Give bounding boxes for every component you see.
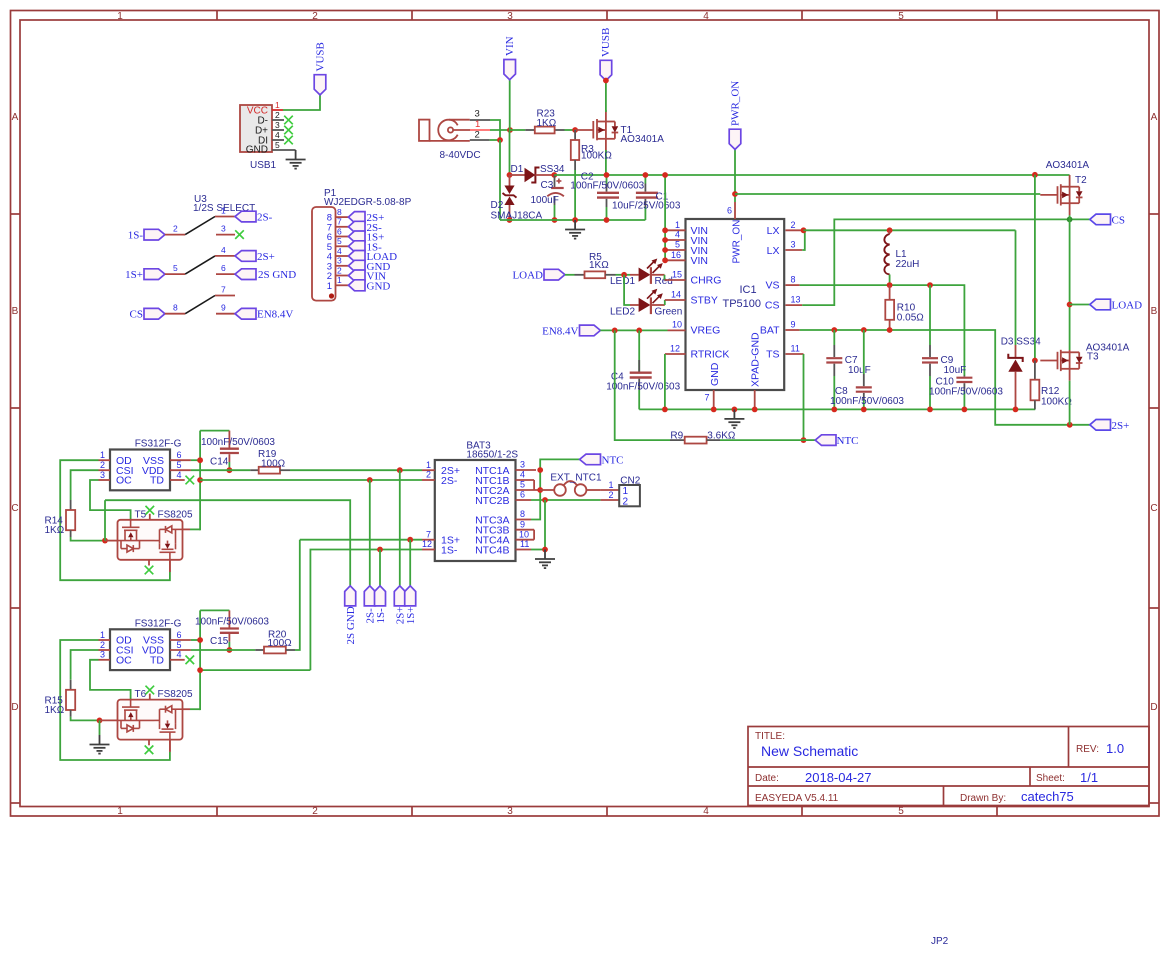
svg-text:CN2: CN2 (620, 476, 640, 487)
IC1 pin 7 GND stub (704, 390, 713, 409)
svg-text:3: 3 (221, 224, 226, 234)
junction VS/C9 (927, 282, 933, 288)
no-connect X on TD pin (186, 656, 195, 665)
svg-text:USB1: USB1 (250, 160, 277, 171)
svg-text:CS: CS (765, 300, 780, 312)
GND bus wire y=220 (500, 219, 645, 221)
svg-text:PWR_ON: PWR_ON (730, 81, 742, 126)
junction main ground (732, 407, 738, 413)
svg-text:EASYEDA V5.4.11: EASYEDA V5.4.11 (755, 793, 839, 804)
no-connect X on T6 bottom pin (145, 740, 154, 755)
svg-text:Green: Green (655, 307, 683, 318)
P1 pin 3 to net GND (336, 256, 391, 273)
net flag EN8.4V (U3) (235, 308, 293, 320)
svg-text:catech75: catech75 (1021, 789, 1074, 804)
svg-text:C15: C15 (210, 636, 229, 647)
svg-text:4: 4 (703, 806, 709, 817)
P1 pin 2 to net VIN (336, 265, 387, 282)
wire VSS node vertical (191, 610, 200, 710)
junction NTC1A (537, 467, 543, 473)
U3 pin 2 (165, 224, 185, 235)
svg-text:1: 1 (327, 281, 332, 292)
wire CS net (802, 219, 1090, 305)
svg-text:2S+: 2S+ (257, 251, 275, 263)
svg-text:LOAD: LOAD (1112, 300, 1143, 312)
IC1 pin 8 VS stub (786, 284, 800, 286)
svg-text:LED1: LED1 (610, 276, 635, 287)
LED2 Green (610, 289, 682, 318)
svg-text:1: 1 (100, 630, 105, 640)
svg-text:3: 3 (100, 470, 105, 480)
svg-text:3: 3 (791, 240, 796, 250)
net flag NTC (BAT3) (580, 454, 624, 466)
svg-text:1: 1 (608, 480, 613, 490)
FS312 1 pin stubs (99, 460, 191, 480)
svg-text:100Ω: 100Ω (261, 459, 286, 470)
svg-text:New Schematic: New Schematic (761, 743, 858, 759)
svg-text:10uF: 10uF (944, 365, 967, 376)
U3 pin 6 (216, 263, 235, 274)
wire CSI to R14 (71, 470, 99, 500)
svg-text:4: 4 (177, 470, 182, 480)
BAT3 right pin stubs (516, 470, 541, 550)
svg-text:3: 3 (475, 109, 480, 120)
svg-text:JP2: JP2 (931, 936, 949, 947)
junction 2S+/T3 drain (1067, 422, 1073, 428)
junction BAT/C7 (831, 327, 837, 333)
svg-text:A: A (12, 112, 19, 123)
svg-text:2S-: 2S- (441, 475, 458, 487)
svg-text:NTC2B: NTC2B (475, 495, 509, 507)
junction jack pin2 node (497, 137, 503, 143)
ground main (724, 409, 744, 428)
svg-text:2: 2 (100, 640, 105, 650)
svg-text:5: 5 (898, 11, 904, 22)
GND bus wire y=409.4 (639, 408, 1035, 410)
svg-text:8: 8 (173, 303, 178, 313)
wire 2S- vertical to flag (369, 480, 371, 586)
junction R3/GND (572, 217, 578, 223)
svg-text:4: 4 (275, 130, 280, 140)
svg-text:11: 11 (791, 344, 800, 354)
svg-text:2S GND: 2S GND (258, 269, 296, 281)
svg-text:NTC: NTC (602, 454, 624, 466)
transistor T6 FS8205 dual MOSFET (118, 689, 193, 740)
wire VSS node vertical (191, 431, 200, 531)
net flag 1S+ (vertical) (405, 586, 417, 624)
junction VIN pin4 (662, 237, 668, 243)
wire 1S- row (310, 550, 422, 671)
svg-text:1KΩ: 1KΩ (589, 260, 609, 271)
svg-text:1: 1 (675, 220, 680, 230)
net flag NTC (R9) (815, 435, 858, 447)
P1 pin 6 to net 1S+ (336, 226, 385, 243)
junction T3 gate node (1032, 358, 1038, 364)
no-connect X on T6 top pin (146, 686, 155, 700)
capacitor C15 100nF/50V/0603 (195, 610, 269, 650)
junction C15 bottom (227, 647, 233, 653)
svg-text:Date:: Date: (755, 773, 779, 784)
net flag VIN (504, 36, 516, 130)
svg-text:3: 3 (100, 650, 105, 660)
wire 1S+ vertical to flag (409, 540, 411, 586)
svg-text:T6: T6 (135, 689, 147, 700)
svg-text:7: 7 (704, 393, 709, 403)
svg-text:2: 2 (337, 265, 342, 275)
svg-text:9: 9 (221, 303, 226, 313)
capacitor C1 10uF/25V/0603 (612, 175, 681, 220)
svg-text:EXT_NTC1: EXT_NTC1 (550, 473, 602, 484)
IC1 VIN pin stubs 1,4,5,16 (665, 230, 685, 260)
jumper link 8-7 (185, 296, 215, 314)
wire VIN vertical to D1 (509, 130, 511, 175)
connector CN2 (601, 476, 641, 508)
capacitor C3 100uF polarized (531, 175, 564, 220)
svg-text:18650/1-2S: 18650/1-2S (466, 450, 518, 461)
svg-text:6: 6 (727, 206, 732, 216)
svg-text:100Ω: 100Ω (268, 638, 293, 649)
wire LX corner down to D3 (1015, 230, 1017, 345)
svg-text:CS: CS (130, 309, 143, 321)
jack pin 1 highlighted (470, 119, 490, 130)
svg-text:LX: LX (767, 245, 780, 257)
svg-text:D: D (1150, 702, 1157, 713)
junction BAT/R10 (887, 327, 893, 333)
svg-text:3: 3 (507, 11, 513, 22)
jack pin 3 (470, 109, 490, 121)
IC C14 FS312F-G body (110, 439, 182, 491)
wire PWR_ON to T2 gate (735, 193, 1040, 195)
U3 pin 5 (165, 263, 185, 274)
svg-text:4: 4 (703, 11, 709, 22)
svg-text:1S-: 1S- (441, 545, 458, 557)
svg-text:4: 4 (337, 246, 342, 256)
wire OD pin loop to T6 bottom (60, 640, 170, 760)
junction VSS2 link (197, 667, 203, 673)
wire LOAD tap to flag (1070, 304, 1090, 306)
wire 1S- vertical to flag (379, 550, 381, 586)
svg-text:100uF: 100uF (531, 195, 559, 206)
svg-text:11: 11 (520, 539, 529, 549)
svg-text:3: 3 (337, 256, 342, 266)
svg-text:4: 4 (177, 650, 182, 660)
jumper EXT_NTC1 (540, 473, 602, 496)
svg-text:AO3401A: AO3401A (1046, 160, 1090, 171)
svg-text:TP5100: TP5100 (723, 298, 762, 310)
svg-text:1S-: 1S- (128, 230, 144, 242)
svg-text:2: 2 (312, 806, 318, 817)
junction C10/GND bus (962, 407, 968, 413)
svg-text:1: 1 (275, 100, 280, 110)
svg-text:OC: OC (116, 655, 132, 667)
IC1 pin 2 LX stub (786, 229, 804, 231)
svg-text:1: 1 (100, 450, 105, 460)
svg-text:VS: VS (765, 280, 779, 292)
no-connect X on T5 top pin (146, 506, 155, 520)
resistor R5 1KOhm (575, 252, 616, 278)
junction D1 anode (507, 172, 513, 178)
IC1 pin 13 CS stub (786, 304, 803, 306)
svg-text:2: 2 (608, 490, 613, 500)
junction L1 top (887, 227, 893, 233)
junction VIN pin16 (662, 257, 668, 263)
IC1 XPAD-GND stub (754, 390, 756, 409)
capacitor C10 100nF/50V/0603 (929, 376, 1003, 410)
svg-text:FS8205: FS8205 (158, 509, 193, 520)
junction BAT/C8 (861, 327, 867, 333)
U3 pin 7 open (215, 285, 235, 296)
resistor R9 3.6KOhm (670, 430, 736, 443)
wire R14 to T5 left pin (71, 537, 105, 541)
svg-text:100KΩ: 100KΩ (1041, 397, 1072, 408)
wire LED1 to LED2 branch (624, 275, 630, 305)
FS312 2 pin stubs (99, 640, 191, 660)
svg-text:XPAD-GND: XPAD-GND (750, 332, 762, 387)
wire NTC net at BAT3 (531, 459, 580, 519)
capacitor C9 10uF (922, 285, 966, 409)
svg-text:2: 2 (173, 224, 178, 234)
net flag CS (U3) (130, 308, 165, 320)
svg-text:2: 2 (475, 130, 480, 141)
svg-text:1KΩ: 1KΩ (537, 118, 557, 129)
svg-text:2: 2 (791, 220, 796, 230)
svg-text:TD: TD (150, 475, 164, 487)
ground at BAT3 NTC4B (535, 550, 555, 569)
IC1 pin 9 BAT stub (786, 329, 800, 331)
svg-text:7: 7 (426, 529, 431, 539)
wire pin2 node down to GND bus (499, 140, 501, 220)
IC1 pin 6 stub (727, 202, 735, 219)
LED1 Red (610, 259, 673, 288)
wire T2 gate vertical (1034, 175, 1036, 361)
inductor L1 22uH (884, 230, 919, 285)
svg-text:10: 10 (519, 529, 529, 539)
USB1 pin 4 DI (272, 130, 293, 144)
jumper header U3 labels (193, 194, 255, 214)
junction T2 gate node (1032, 172, 1038, 178)
svg-text:5: 5 (173, 263, 178, 273)
junction TD row (197, 477, 203, 483)
connector J1 DC jack 8-40VDC (419, 120, 470, 141)
net flag CS (1090, 214, 1125, 226)
net flag 2S GND (235, 269, 296, 281)
wire T1 drain to VIN bus (605, 150, 607, 175)
svg-text:100nF/50V/0603: 100nF/50V/0603 (606, 382, 680, 393)
svg-text:1/1: 1/1 (1080, 770, 1098, 785)
TVS diode D2 SMAJ18CA (491, 175, 543, 222)
svg-text:2: 2 (312, 11, 318, 22)
IC1 pin 12 stub and wire to GND bus (665, 354, 686, 409)
IC C15 FS312F-G body (110, 618, 182, 670)
net flag 2S+ (right) (1090, 420, 1130, 432)
svg-text:OC: OC (116, 475, 132, 487)
ground at USB1 pin 5 (286, 150, 306, 169)
svg-text:1: 1 (221, 206, 226, 216)
junction NTC2B/NTC4B link (542, 497, 548, 503)
svg-text:6: 6 (177, 630, 182, 640)
junction LOAD tap (1067, 302, 1073, 308)
svg-text:5: 5 (177, 460, 182, 470)
svg-text:1.0: 1.0 (1106, 741, 1124, 756)
net flag 2S+ (235, 251, 275, 263)
net flag EN8.4V (542, 325, 600, 337)
wire R20 up to 1S+ row (295, 540, 300, 650)
svg-text:EN8.4V: EN8.4V (542, 326, 578, 338)
capacitor C4 100nF/50V/0603 (606, 330, 680, 409)
battery holder BAT3 body (435, 441, 519, 562)
svg-text:VUSB: VUSB (600, 28, 612, 57)
svg-text:GND: GND (709, 362, 721, 386)
wire jack pin1 to VIN node (490, 129, 510, 131)
svg-text:8: 8 (791, 275, 796, 285)
junction D3/GND bus (1013, 407, 1019, 413)
svg-text:B: B (1151, 306, 1158, 317)
P1 pin 4 to net LOAD (336, 246, 398, 263)
svg-text:8: 8 (520, 509, 525, 519)
svg-text:6: 6 (520, 490, 525, 500)
svg-text:T3: T3 (1087, 352, 1099, 363)
svg-text:GND: GND (367, 280, 391, 292)
net flag 1S+ (125, 269, 165, 281)
svg-text:LOAD: LOAD (512, 270, 543, 282)
wire VSS2 to 1S- link (200, 669, 310, 671)
junction EN8.4V/C4 branch (636, 328, 642, 334)
USB1 pin 2 D- (272, 110, 293, 124)
net flag LOAD (right) (1090, 299, 1142, 311)
svg-text:100nF/50V/0603: 100nF/50V/0603 (929, 387, 1003, 398)
wire LED1 jog to pin15 (664, 275, 666, 280)
svg-text:FS312F-G: FS312F-G (135, 618, 182, 629)
svg-text:1: 1 (117, 806, 123, 817)
svg-text:4: 4 (221, 245, 226, 255)
U3 pin 8 (165, 303, 185, 314)
svg-text:15: 15 (672, 270, 682, 280)
svg-text:GND: GND (246, 145, 268, 156)
junction 1S+ branch (407, 537, 413, 543)
svg-text:2S GND: 2S GND (345, 606, 357, 644)
svg-text:1: 1 (426, 460, 431, 470)
svg-text:10uF: 10uF (848, 365, 871, 376)
wire VIN node to R23 (510, 129, 525, 131)
svg-text:STBY: STBY (691, 295, 718, 307)
net flag VUSB (USB1) (314, 42, 326, 95)
junction T6 left node (97, 718, 103, 724)
U3 pin 9 (216, 303, 235, 314)
svg-text:1: 1 (475, 119, 480, 130)
resistor R23 1KOhm (525, 108, 564, 133)
svg-text:100nF/50V/0603: 100nF/50V/0603 (830, 396, 904, 407)
junction LED branch (621, 272, 627, 278)
junction VIN bus tap (662, 172, 668, 178)
junction C9/GND bus (927, 407, 933, 413)
wire 2S- row (200, 479, 422, 481)
IC1 pin 10 stub (668, 329, 686, 331)
wire R23 to T1 gate node (565, 129, 576, 131)
ground at T6 node (90, 720, 110, 753)
resistor R19 100Ohm (191, 449, 290, 474)
svg-text:R12: R12 (1041, 386, 1060, 397)
svg-text:5: 5 (337, 236, 342, 246)
resistor R20 100Ohm (191, 629, 295, 653)
junction pin12/GND bus (662, 407, 668, 413)
net flag 1S- (128, 229, 165, 241)
svg-text:NTC: NTC (837, 435, 859, 447)
ground at GND bus (565, 220, 585, 239)
T6 right pin wire (183, 708, 201, 710)
junction T1 gate node (572, 127, 578, 133)
capacitor C2 100nF/50V/0603 (570, 172, 644, 221)
wire R3 bottom to GND bus (574, 170, 576, 220)
transistor T2 AO3401A PMOS (1040, 175, 1082, 215)
svg-text:5: 5 (177, 640, 182, 650)
svg-text:7: 7 (221, 285, 226, 295)
resistor R12 100KOhm (1031, 361, 1073, 410)
svg-text:3: 3 (520, 460, 525, 470)
net flag 2S+ (vertical) (394, 586, 406, 624)
svg-text:12: 12 (422, 539, 432, 549)
T6 bottom drain stub (169, 740, 171, 752)
svg-text:1S-: 1S- (375, 608, 387, 624)
junction VSS (197, 637, 203, 643)
svg-text:2S+: 2S+ (1112, 420, 1130, 432)
junction C2 bottom (604, 217, 610, 223)
connector P1 body (312, 188, 412, 301)
svg-text:1: 1 (117, 11, 123, 22)
svg-text:2018-04-27: 2018-04-27 (805, 770, 872, 785)
wire R19 to BAT3 2S+ (290, 469, 422, 471)
resistor R10 0.05Ohm (885, 285, 924, 330)
wire NTC4B link vertical (544, 500, 546, 550)
svg-text:R9: R9 (670, 430, 683, 441)
svg-text:Drawn By:: Drawn By: (960, 793, 1006, 804)
svg-text:1: 1 (623, 486, 629, 497)
P1 pin 1 to net GND (336, 275, 391, 292)
svg-text:100nF/50V/0603: 100nF/50V/0603 (195, 617, 269, 628)
junction VIN pin1 (662, 227, 668, 233)
junction EN8.4V/R9 branch (612, 328, 618, 334)
svg-text:C14: C14 (210, 456, 229, 467)
svg-text:1: 1 (337, 275, 342, 285)
svg-text:A: A (1151, 112, 1158, 123)
wire OC to gate (90, 660, 131, 700)
wire R5 to LED1 (616, 274, 631, 276)
wire EN8.4V to VREG (600, 329, 667, 331)
svg-text:9: 9 (791, 320, 796, 330)
junction CS/T2 drain (1067, 217, 1073, 223)
transistor T1 AO3401A PMOS (575, 110, 618, 152)
IC1 pin 15 stub (665, 279, 686, 281)
svg-text:T5: T5 (135, 509, 147, 520)
T5 bottom drain stub (169, 560, 171, 572)
capacitor C7 10uF (826, 330, 870, 409)
svg-text:4: 4 (675, 230, 680, 240)
jumper link 2-1 (185, 217, 215, 235)
svg-text:3: 3 (275, 120, 280, 130)
svg-text:2: 2 (426, 470, 431, 480)
svg-text:1KΩ: 1KΩ (45, 705, 65, 716)
svg-text:2: 2 (623, 496, 629, 507)
svg-text:5: 5 (898, 806, 904, 817)
svg-text:FS312F-G: FS312F-G (135, 439, 182, 450)
svg-text:C: C (1150, 503, 1157, 514)
svg-text:CHRG: CHRG (691, 275, 722, 287)
net flag 2S- (235, 211, 273, 223)
junction C7/GND bus (831, 407, 837, 413)
wire R9 to TS node (720, 439, 804, 441)
wire 1S+ row (300, 539, 422, 541)
junction VSS (197, 457, 203, 463)
svg-text:AO3401A: AO3401A (621, 134, 665, 145)
